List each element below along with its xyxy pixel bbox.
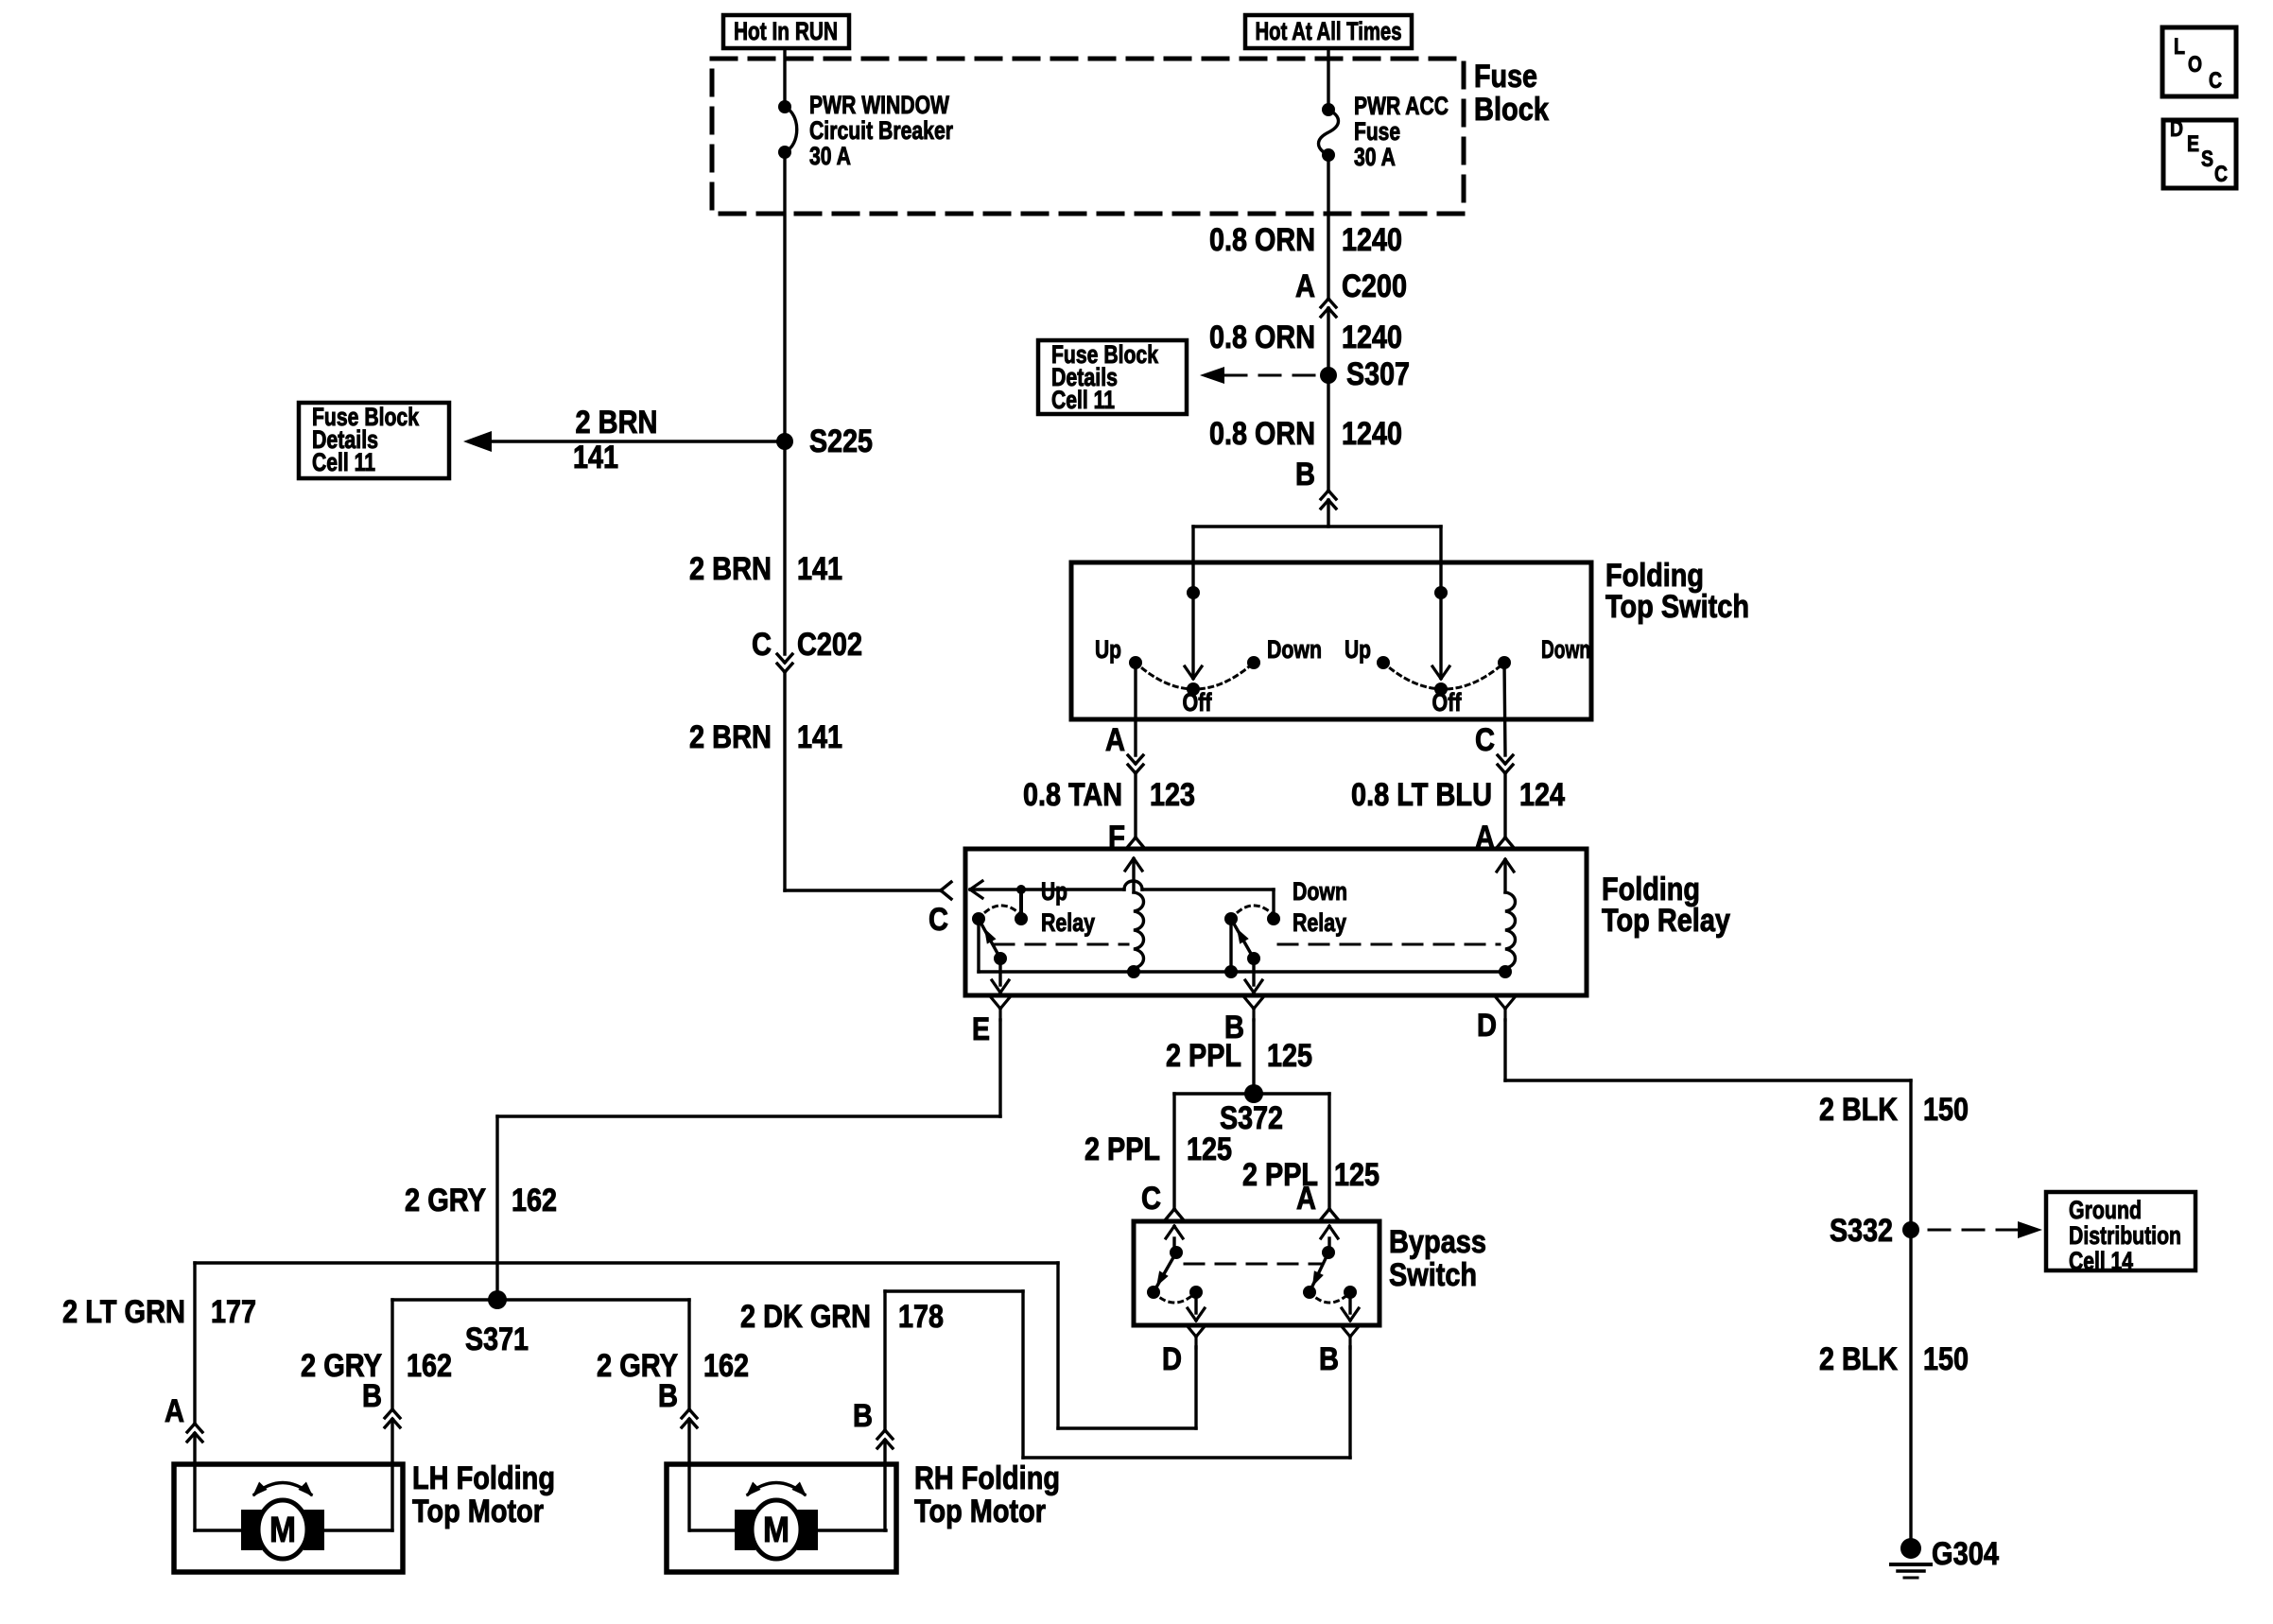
- svg-text:2 PPL: 2 PPL: [1084, 1132, 1160, 1167]
- svg-text:Top Motor: Top Motor: [412, 1494, 544, 1529]
- svg-text:Hot At All Times: Hot At All Times: [1256, 17, 1402, 45]
- svg-text:LH Folding: LH Folding: [412, 1460, 555, 1496]
- svg-text:Cell 11: Cell 11: [312, 448, 375, 476]
- svg-text:0.8 TAN: 0.8 TAN: [1023, 777, 1122, 813]
- svg-text:C: C: [1475, 722, 1495, 758]
- svg-text:2 LT GRN: 2 LT GRN: [62, 1294, 185, 1330]
- svg-text:B: B: [362, 1378, 382, 1414]
- svg-text:E: E: [2187, 131, 2199, 157]
- svg-text:Circuit Breaker: Circuit Breaker: [809, 116, 953, 145]
- svg-text:A: A: [1296, 1181, 1316, 1217]
- svg-text:Down: Down: [1293, 877, 1347, 906]
- svg-text:S371: S371: [465, 1322, 529, 1357]
- svg-text:C200: C200: [1342, 268, 1407, 304]
- svg-text:30 A: 30 A: [1354, 143, 1396, 171]
- svg-text:D: D: [2170, 116, 2183, 142]
- svg-text:Fuse: Fuse: [1474, 59, 1537, 95]
- svg-text:D: D: [1162, 1341, 1182, 1377]
- svg-text:Top Motor: Top Motor: [914, 1494, 1046, 1529]
- svg-text:PWR ACC: PWR ACC: [1354, 92, 1449, 120]
- svg-text:B: B: [658, 1378, 678, 1414]
- svg-text:Up: Up: [1095, 635, 1121, 664]
- svg-text:Distribution: Distribution: [2069, 1221, 2181, 1250]
- svg-text:Up: Up: [1041, 877, 1067, 906]
- svg-text:Off: Off: [1432, 688, 1462, 717]
- svg-text:O: O: [2188, 52, 2202, 78]
- svg-text:Top Switch: Top Switch: [1605, 589, 1749, 625]
- svg-text:124: 124: [1519, 777, 1565, 813]
- svg-text:C: C: [2209, 68, 2222, 94]
- svg-text:Fuse: Fuse: [1354, 117, 1400, 146]
- svg-text:177: 177: [211, 1294, 256, 1330]
- svg-text:M: M: [763, 1511, 789, 1550]
- svg-text:2 BRN: 2 BRN: [689, 719, 772, 755]
- svg-text:141: 141: [797, 551, 842, 587]
- svg-text:G304: G304: [1932, 1536, 1999, 1572]
- svg-text:B: B: [853, 1398, 873, 1434]
- svg-text:30 A: 30 A: [809, 142, 851, 170]
- svg-text:RH Folding: RH Folding: [914, 1460, 1060, 1496]
- svg-text:0.8 ORN: 0.8 ORN: [1209, 416, 1315, 452]
- svg-text:L: L: [2174, 34, 2185, 60]
- svg-text:Up: Up: [1345, 635, 1371, 664]
- svg-text:PWR WINDOW: PWR WINDOW: [809, 91, 949, 119]
- svg-text:1240: 1240: [1342, 416, 1402, 452]
- svg-text:162: 162: [407, 1348, 452, 1384]
- svg-text:S332: S332: [1830, 1213, 1893, 1249]
- svg-text:150: 150: [1923, 1092, 1969, 1128]
- svg-text:Cell 11: Cell 11: [1051, 386, 1115, 414]
- svg-text:178: 178: [898, 1299, 944, 1335]
- svg-text:125: 125: [1187, 1132, 1232, 1167]
- svg-text:S: S: [2201, 147, 2213, 172]
- svg-text:B: B: [1319, 1341, 1339, 1377]
- svg-text:C: C: [752, 627, 772, 663]
- svg-text:D: D: [1477, 1008, 1497, 1044]
- svg-text:Off: Off: [1183, 688, 1212, 717]
- svg-text:Top Relay: Top Relay: [1602, 903, 1730, 939]
- svg-text:0.8 ORN: 0.8 ORN: [1209, 320, 1315, 355]
- svg-text:0.8 LT BLU: 0.8 LT BLU: [1351, 777, 1492, 813]
- svg-text:2 BRN: 2 BRN: [689, 551, 772, 587]
- svg-text:123: 123: [1150, 777, 1195, 813]
- svg-text:Switch: Switch: [1389, 1257, 1477, 1293]
- svg-text:2 BLK: 2 BLK: [1819, 1341, 1898, 1377]
- svg-text:A: A: [165, 1393, 184, 1429]
- svg-text:2 BLK: 2 BLK: [1819, 1092, 1898, 1128]
- svg-text:0.8 ORN: 0.8 ORN: [1209, 222, 1315, 258]
- svg-text:Cell 14: Cell 14: [2069, 1247, 2133, 1275]
- svg-text:C: C: [2214, 162, 2228, 187]
- svg-text:Hot In RUN: Hot In RUN: [734, 17, 838, 45]
- svg-text:1240: 1240: [1342, 320, 1402, 355]
- svg-text:C: C: [1141, 1181, 1161, 1217]
- svg-text:S225: S225: [809, 423, 873, 459]
- svg-text:125: 125: [1334, 1157, 1379, 1193]
- svg-text:S307: S307: [1346, 356, 1410, 392]
- svg-text:Ground: Ground: [2069, 1196, 2142, 1224]
- svg-text:A: A: [1295, 268, 1315, 304]
- svg-text:1240: 1240: [1342, 222, 1402, 258]
- svg-text:E: E: [972, 1011, 990, 1047]
- svg-text:B: B: [1295, 457, 1315, 492]
- svg-text:141: 141: [797, 719, 842, 755]
- svg-text:Down: Down: [1267, 635, 1322, 664]
- svg-text:2 DK GRN: 2 DK GRN: [740, 1299, 871, 1335]
- svg-text:2 PPL: 2 PPL: [1166, 1038, 1241, 1074]
- svg-text:2 BRN: 2 BRN: [576, 405, 658, 441]
- svg-text:Bypass: Bypass: [1389, 1224, 1486, 1260]
- svg-text:Relay: Relay: [1293, 908, 1346, 937]
- svg-text:162: 162: [512, 1183, 557, 1218]
- svg-text:C: C: [928, 902, 948, 938]
- svg-text:141: 141: [573, 440, 618, 475]
- svg-text:150: 150: [1923, 1341, 1969, 1377]
- svg-text:162: 162: [703, 1348, 749, 1384]
- svg-text:Block: Block: [1474, 92, 1549, 128]
- svg-text:C202: C202: [797, 627, 862, 663]
- svg-text:125: 125: [1267, 1038, 1312, 1074]
- svg-text:2 GRY: 2 GRY: [405, 1183, 486, 1218]
- svg-text:M: M: [269, 1511, 296, 1550]
- svg-text:Down: Down: [1541, 635, 1590, 664]
- svg-text:A: A: [1105, 722, 1125, 758]
- svg-text:Relay: Relay: [1041, 908, 1095, 937]
